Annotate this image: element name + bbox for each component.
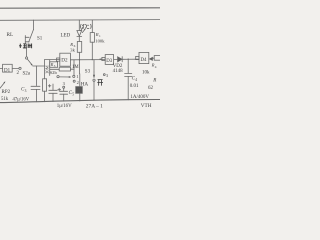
wire positive supply rail	[0, 19, 160, 22]
switch S3	[93, 60, 95, 101]
LED indicator	[77, 20, 86, 42]
svg-text:4: 4	[135, 78, 137, 82]
resistor R2 10M	[43, 60, 47, 102]
svg-text:2: 2	[77, 80, 79, 85]
svg-text:1M: 1M	[72, 65, 79, 70]
svg-text:62: 62	[148, 86, 154, 91]
IC gate D1	[0, 64, 21, 72]
svg-text:3: 3	[106, 73, 108, 78]
svg-text:HA: HA	[81, 81, 89, 87]
svg-text:4148: 4148	[113, 69, 124, 74]
label 开 (on)	[97, 80, 103, 86]
svg-text:5: 5	[72, 92, 74, 96]
wire bottom ground rail	[0, 99, 160, 102]
svg-text:S2a: S2a	[23, 72, 31, 77]
resistor R4 10k horizontal	[153, 56, 161, 61]
IC gate D2	[60, 53, 71, 66]
svg-text:1A/400V: 1A/400V	[130, 95, 149, 100]
svg-text:4: 4	[155, 65, 157, 69]
buzzer HA	[76, 74, 83, 101]
capacitor C2 electrolytic	[48, 84, 57, 102]
svg-text:100k: 100k	[95, 38, 105, 43]
switch S2b extra position contacts	[63, 80, 75, 88]
wire top mains line	[0, 7, 160, 9]
svg-text:47μ/16V: 47μ/16V	[13, 97, 30, 102]
potentiometer RP2 wiper arrow	[0, 81, 5, 88]
svg-text:S1: S1	[37, 37, 43, 42]
svg-text:LED: LED	[61, 34, 71, 39]
wire D2 output	[70, 59, 105, 61]
capacitor C3	[31, 86, 40, 102]
svg-text:R: R	[152, 79, 156, 84]
node pin 3	[103, 74, 105, 76]
switch S2b	[57, 75, 75, 78]
label (红) red	[81, 24, 92, 29]
svg-text:S2b: S2b	[50, 70, 58, 75]
switch S2a wiper	[26, 57, 33, 66]
IC gate D3	[100, 55, 118, 65]
svg-text:D4: D4	[141, 58, 147, 63]
svg-text:27A – 1: 27A – 1	[86, 104, 103, 110]
svg-text:1: 1	[76, 74, 78, 79]
svg-text:0.01: 0.01	[130, 84, 139, 89]
diode VD2 4148	[118, 57, 139, 62]
wire LED branch to buzzer branch	[79, 60, 81, 74]
capacitor C5 electrolytic	[58, 88, 68, 101]
wire S2a to timing node	[33, 66, 37, 86]
svg-text:3k: 3k	[70, 48, 75, 53]
IC gate D4	[136, 52, 153, 63]
wire S1 to S2a	[26, 44, 28, 57]
capacitor C4 0.01	[125, 59, 132, 100]
svg-text:RL: RL	[7, 32, 14, 38]
svg-text:D1: D1	[4, 68, 11, 73]
svg-text:10k: 10k	[142, 71, 150, 76]
svg-text:VTH: VTH	[141, 103, 152, 109]
switch S1	[25, 20, 33, 43]
resistor R1 100k	[90, 20, 94, 60]
resistor R6 3k	[77, 42, 81, 60]
svg-text:3: 3	[25, 89, 27, 93]
svg-text:S3: S3	[85, 70, 91, 75]
wire D2 input	[45, 59, 60, 61]
svg-text:51k: 51k	[1, 97, 9, 102]
resistor R3 1M feedback	[50, 60, 74, 76]
wire node to R2 branch	[37, 65, 45, 67]
label 延时 (delay)	[19, 44, 32, 49]
svg-text:D2: D2	[61, 58, 68, 64]
svg-text:RP2: RP2	[2, 90, 11, 95]
svg-text:1μ/16V: 1μ/16V	[57, 104, 72, 109]
